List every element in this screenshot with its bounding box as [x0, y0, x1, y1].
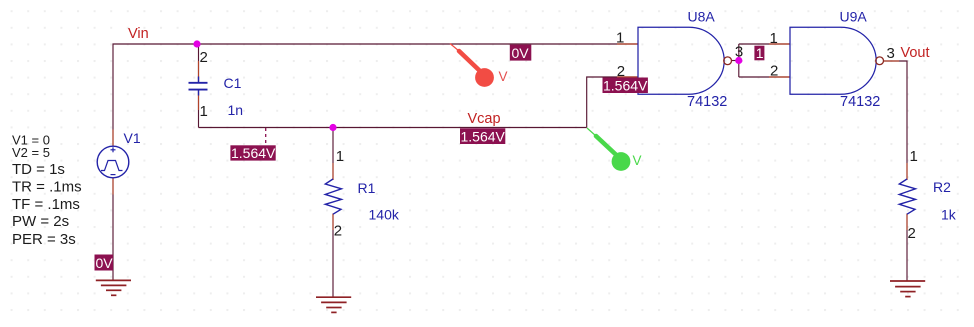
digital state 1 (U9A input net): [754, 45, 764, 61]
bubble U8A output: [724, 57, 732, 65]
svg-text:V2 = 5: V2 = 5: [12, 145, 50, 160]
bias label 1.564V (U8A pin 2): [603, 77, 649, 93]
svg-text:74132: 74132: [840, 94, 880, 110]
svg-text:1.564V: 1.564V: [231, 145, 276, 161]
nand gate U9A: [790, 27, 876, 94]
ground (R1): [316, 297, 351, 312]
voltage probe (red) on Vin: [450, 44, 508, 87]
svg-text:3: 3: [887, 45, 895, 62]
svg-text:Vcap: Vcap: [468, 111, 501, 127]
bias label 0V (Vin net): [510, 45, 532, 61]
voltage probe (green) on Vcap: [587, 128, 642, 171]
wire C1 vertical branch: [198, 44, 200, 128]
wire R1 branch: [332, 128, 334, 298]
pin stubs (brighter red): [113, 44, 907, 230]
svg-text:TR = .1ms: TR = .1ms: [12, 178, 82, 195]
svg-text:1: 1: [200, 103, 208, 120]
resistor R1: [325, 179, 341, 214]
svg-text:R2: R2: [933, 179, 951, 195]
wire V1 bottom to ground: [112, 178, 114, 280]
svg-text:Vin: Vin: [128, 26, 149, 42]
svg-text:2: 2: [334, 223, 342, 240]
wire U9A output to R2 and ground: [884, 61, 908, 281]
svg-text:C1: C1: [224, 75, 242, 91]
svg-text:V: V: [633, 153, 642, 168]
wire Vin net: V1 top to U8A pin 1: [113, 44, 638, 146]
svg-text:Vout: Vout: [901, 45, 930, 61]
nand gate U8A: [638, 27, 724, 94]
wire U8A output to U9A inputs: [732, 44, 791, 77]
voltage source V1: [97, 146, 129, 178]
svg-text:1: 1: [770, 30, 778, 47]
svg-text:R1: R1: [358, 180, 376, 196]
svg-text:1: 1: [910, 148, 918, 165]
bubble U9A output: [876, 57, 884, 65]
svg-text:1: 1: [336, 148, 344, 165]
node junction Vin/C1: [193, 40, 200, 47]
svg-text:1k: 1k: [941, 207, 957, 223]
capacitor C1: [189, 77, 208, 96]
svg-text:0V: 0V: [512, 45, 530, 61]
V1 parameters text: [12, 133, 82, 248]
wire Vcap to U8A pin 2: [587, 77, 638, 128]
svg-text:2: 2: [770, 63, 778, 80]
svg-text:1.564V: 1.564V: [461, 128, 506, 144]
resistor R2: [899, 179, 915, 214]
svg-text:140k: 140k: [369, 207, 400, 223]
svg-text:PW = 2s: PW = 2s: [12, 213, 69, 230]
svg-text:TF = .1ms: TF = .1ms: [12, 196, 80, 213]
ground (R2): [890, 281, 925, 297]
node junction Vcap/R1: [329, 124, 336, 131]
bias label 1.564V (Vcap net): [460, 128, 506, 144]
svg-text:1.564V: 1.564V: [603, 77, 648, 93]
svg-text:74132: 74132: [687, 94, 727, 110]
ground (V1): [96, 280, 131, 295]
svg-text:V: V: [499, 69, 508, 84]
svg-text:0V: 0V: [96, 255, 114, 271]
wire Vcap net horizontal: [199, 127, 587, 129]
svg-text:U8A: U8A: [688, 8, 716, 24]
svg-text:U9A: U9A: [840, 8, 868, 24]
svg-text:2: 2: [200, 49, 208, 66]
bias label 1.564V (C1, with dashed leader): [230, 128, 276, 161]
svg-text:PER = 3s: PER = 3s: [12, 231, 76, 248]
bias label 0V (V1 bottom): [95, 255, 114, 272]
svg-text:V1: V1: [124, 130, 141, 146]
svg-text:2: 2: [908, 225, 916, 242]
svg-text:1n: 1n: [228, 102, 244, 118]
node junction U8A out: [735, 57, 742, 64]
svg-text:1: 1: [616, 30, 624, 47]
svg-text:1: 1: [756, 45, 764, 61]
svg-text:TD = 1s: TD = 1s: [12, 161, 65, 178]
